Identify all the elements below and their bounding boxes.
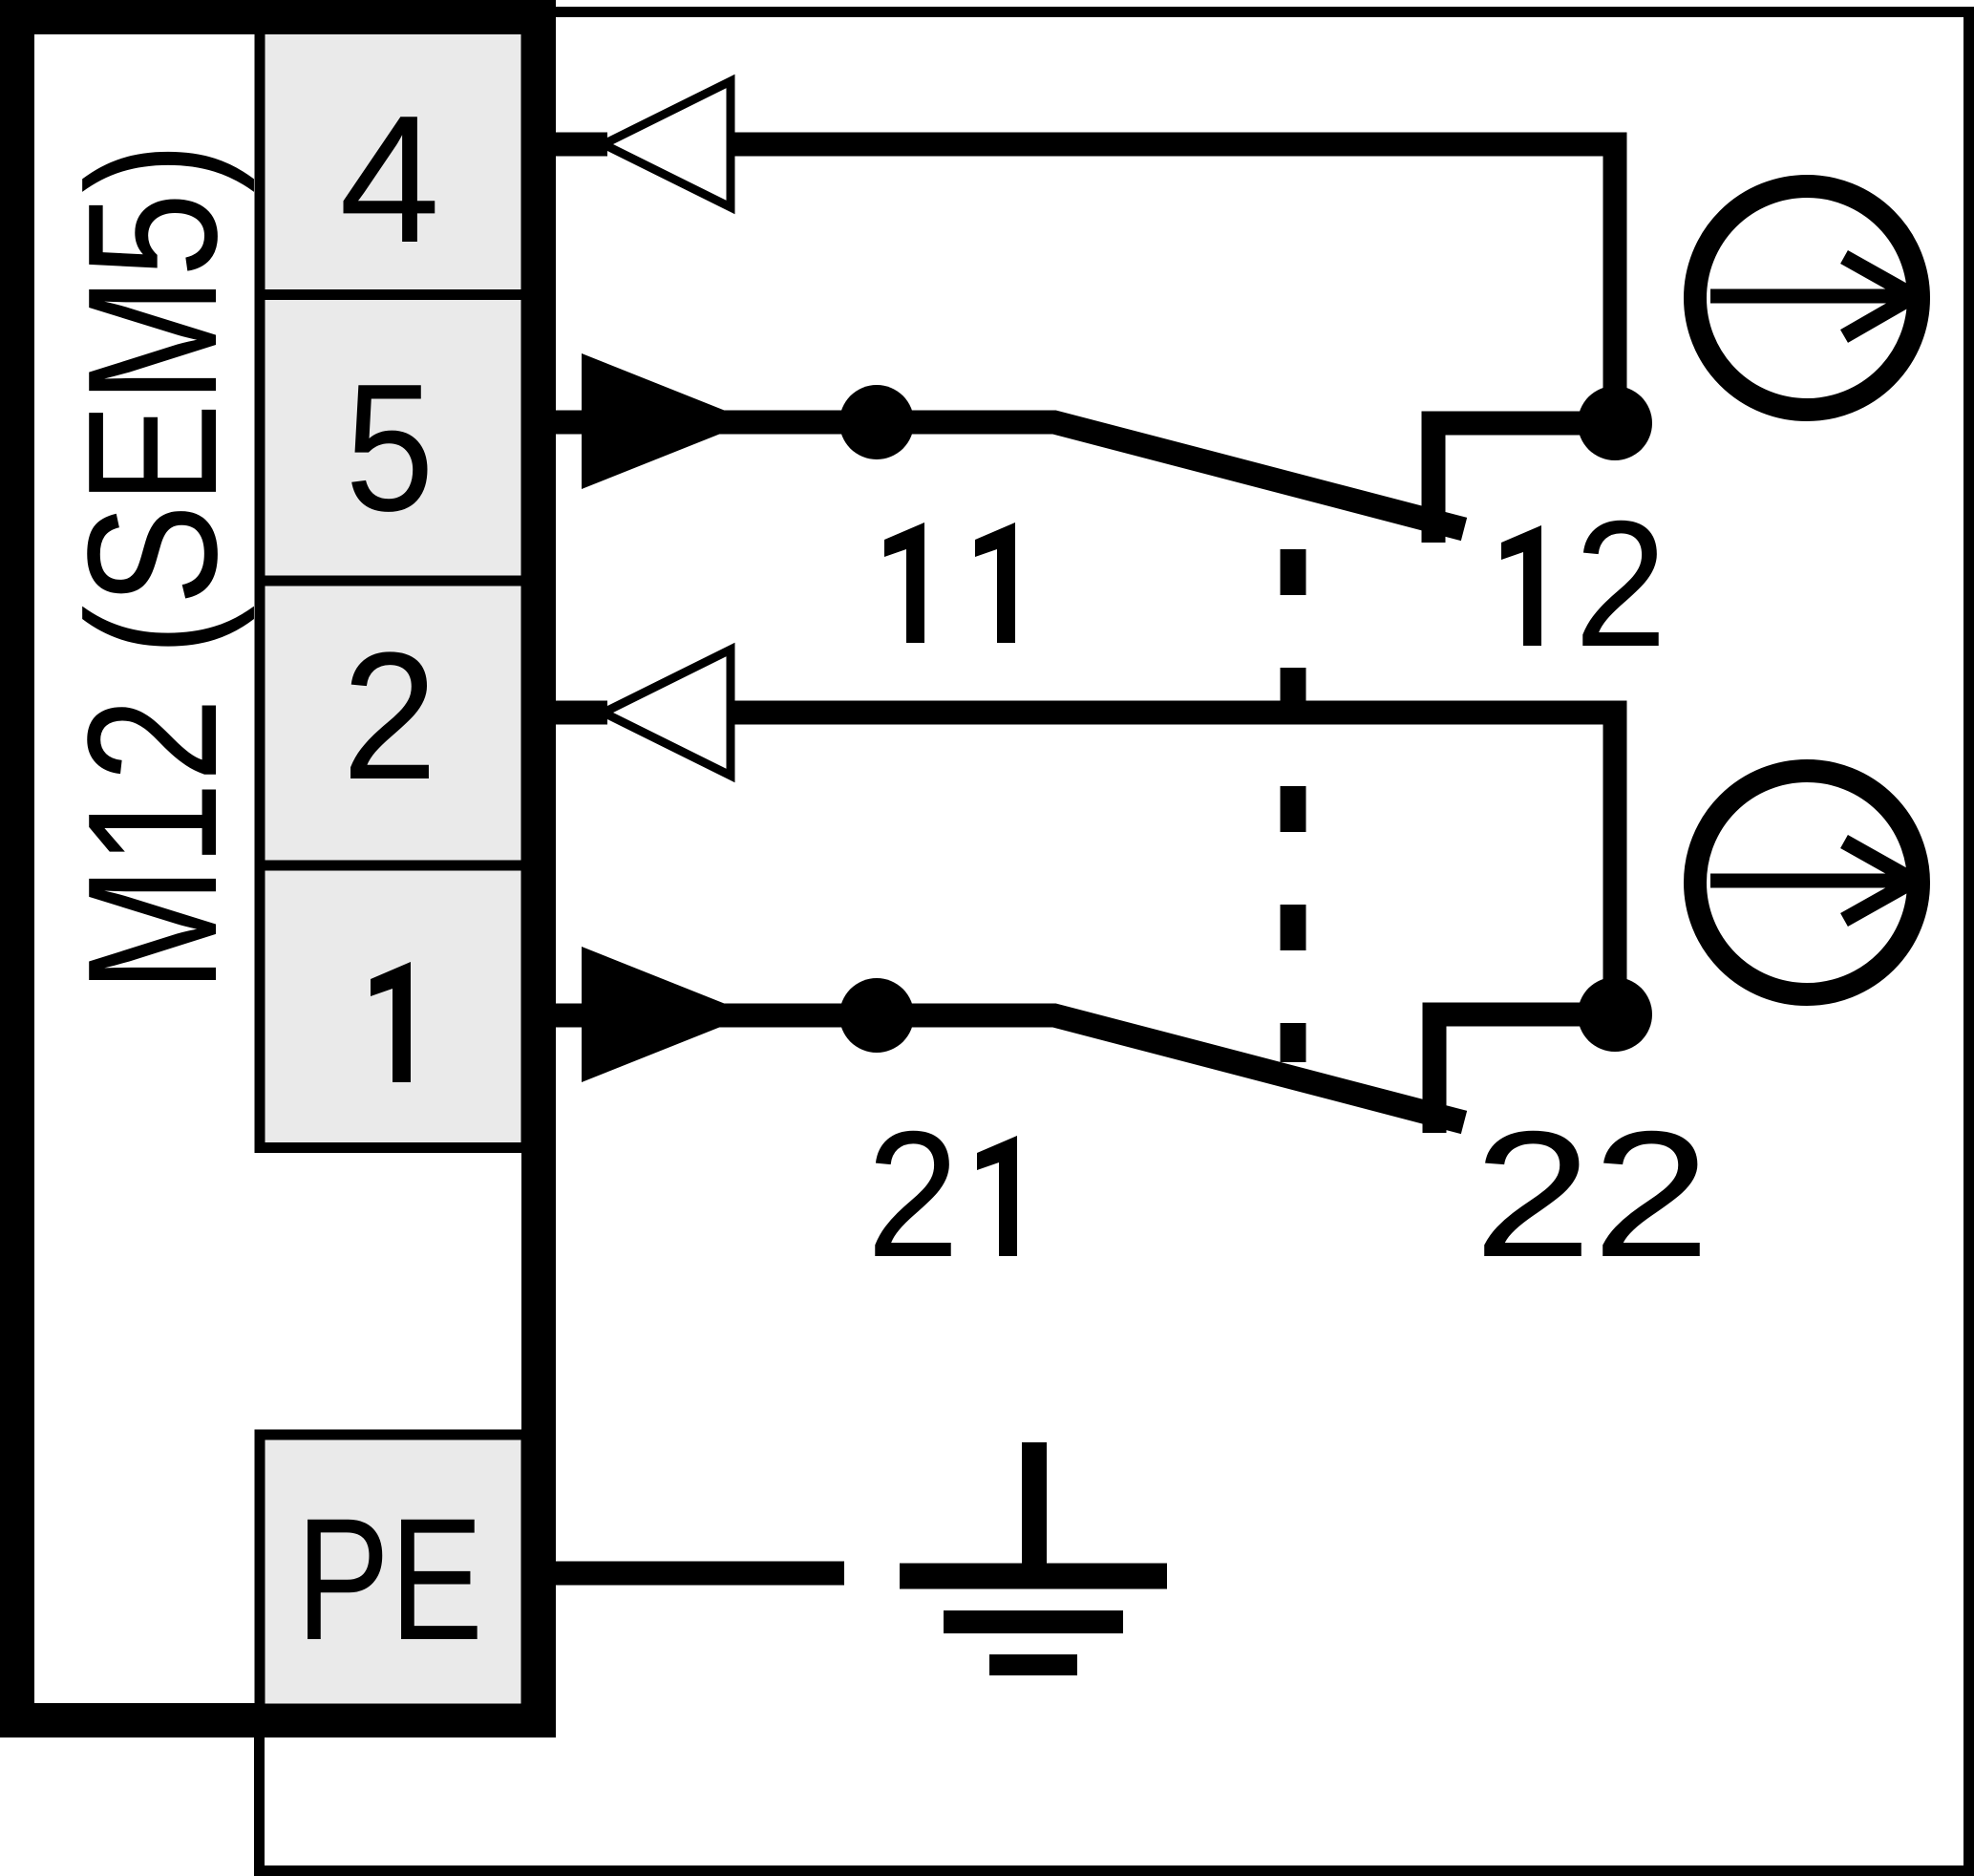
ground symbol stem (1022, 1442, 1047, 1564)
pivot junction dot 11 (839, 385, 914, 459)
dashed coupling line (1281, 549, 1306, 1062)
label 12 (1501, 525, 1541, 646)
ground bar 1 (900, 1564, 1167, 1589)
pin box 2 (260, 581, 526, 865)
filled arrow pin 1 (input) (582, 947, 752, 1082)
svg-text:2: 2 (342, 615, 437, 818)
wire pin1 / switch blade 21-22 (556, 1015, 1464, 1122)
pin box 5 (260, 295, 526, 582)
actuation circle bottom (1695, 771, 1919, 994)
filled arrow pin 5 (input) (582, 353, 752, 489)
wire node 12 to fixed contact 12 (1433, 423, 1615, 543)
wire node 22 to fixed contact 22 (1434, 1014, 1615, 1133)
pin box 4 (260, 30, 526, 295)
svg-text:2: 2 (867, 1094, 960, 1294)
open arrow pin 4 (output signal) (604, 81, 731, 207)
svg-text:M12 (SEM5): M12 (SEM5) (49, 142, 255, 992)
open arrow pin 2 (output signal) (604, 650, 731, 776)
arrow in circle bottom (1710, 874, 1906, 888)
wire pin4 to node 12 (731, 144, 1615, 401)
ground bar 3 (989, 1654, 1077, 1675)
connector housing box M12 (17, 17, 539, 1720)
wire pin2 stub (556, 701, 607, 725)
junction dot node 22 (1578, 977, 1652, 1052)
actuation circle top (1695, 186, 1919, 410)
pin label 1 (371, 962, 411, 1082)
svg-text:4: 4 (339, 78, 440, 281)
wire pin2 to node 22 (731, 713, 1615, 993)
svg-text:22: 22 (1474, 1094, 1710, 1294)
svg-text:PE: PE (296, 1482, 483, 1676)
svg-text:2: 2 (1575, 483, 1667, 684)
svg-text:5: 5 (346, 347, 435, 549)
junction dot node 12 (1578, 386, 1652, 460)
label 11 (884, 522, 1015, 643)
wire pin5 / switch blade 11-12 (556, 422, 1464, 529)
pin box PE (260, 1435, 526, 1709)
pivot junction dot 21 (839, 978, 914, 1053)
arrow in circle top (1710, 289, 1906, 304)
pin box 1 (260, 865, 526, 1148)
wire pin4 stub (556, 133, 607, 157)
PE wire (556, 1562, 844, 1586)
ground bar 2 (944, 1610, 1123, 1633)
